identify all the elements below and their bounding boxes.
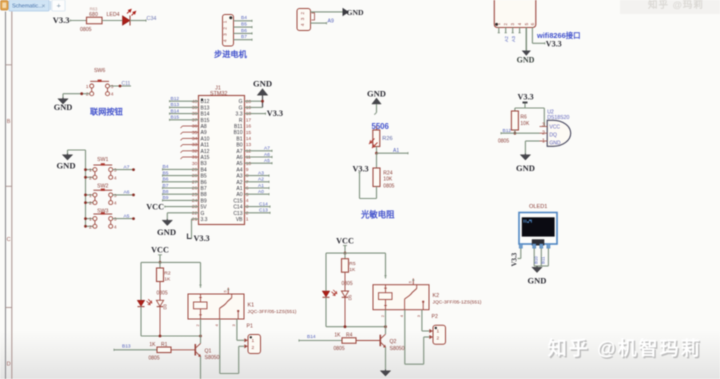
svg-text:GND: GND <box>516 163 535 173</box>
svg-text:VCC: VCC <box>549 125 560 131</box>
svg-text:13: 13 <box>246 142 252 148</box>
wires J1 right nets C14 C13 <box>245 201 271 214</box>
connector wifi8266 <box>494 0 536 28</box>
wire VCC rail (K2) <box>344 246 346 254</box>
svg-text:K2: K2 <box>433 293 440 299</box>
svg-text:29: 29 <box>192 167 198 173</box>
J1 left pin stubs A8-A15 <box>181 126 199 159</box>
svg-text:A4: A4 <box>236 167 242 173</box>
wire R63 to LED4 <box>102 20 122 22</box>
svg-text:Schematic...: Schematic... <box>12 4 43 10</box>
resistor R6 10K 0805 <box>511 111 518 130</box>
svg-text:V3.3: V3.3 <box>267 109 283 118</box>
svg-text:A7: A7 <box>264 146 270 152</box>
svg-text:B9: B9 <box>201 198 207 204</box>
wire G pin19 to gnd <box>245 106 263 108</box>
svg-text:1K: 1K <box>149 342 156 348</box>
svg-text:B7: B7 <box>241 34 247 40</box>
resistor R5 1K 0805 <box>344 253 346 259</box>
svg-text:31: 31 <box>192 155 198 161</box>
wire junction to R24 <box>376 153 378 168</box>
resistor R2 1K 0805 <box>159 262 161 268</box>
wire wifi GND <box>525 28 527 51</box>
wire Q2 emitter to ground <box>385 347 387 369</box>
svg-text:B7: B7 <box>163 183 169 189</box>
photoresistor R26 <box>373 130 380 147</box>
wire diode rail to transistor (Q2) <box>326 326 386 328</box>
svg-text:B11: B11 <box>234 124 243 130</box>
svg-text:C: C <box>7 237 11 243</box>
svg-text:B5: B5 <box>201 174 207 180</box>
svg-text:B6: B6 <box>201 180 207 186</box>
svg-text:GND: GND <box>253 79 272 89</box>
svg-text:▌▌▄▀▌: ▌▌▄▀▌ <box>524 219 533 223</box>
wires J1 left nets B12-B15 <box>170 96 199 121</box>
svg-text:33: 33 <box>192 142 198 148</box>
sheet border frame <box>5 12 7 379</box>
svg-text:知乎 @机智玛莉: 知乎 @机智玛莉 <box>548 337 702 360</box>
ground GND (SW6) <box>62 98 64 99</box>
svg-text:A6: A6 <box>124 190 130 196</box>
svg-text:C11: C11 <box>122 81 131 87</box>
svg-text:B7: B7 <box>201 186 207 192</box>
svg-text:R6: R6 <box>520 114 527 120</box>
resistor R24 10K 0805 <box>373 168 380 187</box>
wire relay coil to collector (Q1) <box>200 319 202 344</box>
svg-text:JQC-3FF/05-1ZS(551): JQC-3FF/05-1ZS(551) <box>433 300 482 306</box>
svg-text:3: 3 <box>114 193 117 199</box>
svg-text:25: 25 <box>192 192 198 198</box>
svg-text:11: 11 <box>246 155 251 161</box>
ground GND (DS18B20) <box>524 154 526 155</box>
svg-text:0805: 0805 <box>342 281 353 287</box>
connector J? stepper motor <box>223 15 234 47</box>
svg-text:16: 16 <box>246 124 252 130</box>
svg-text:2: 2 <box>89 175 92 181</box>
svg-text:A3: A3 <box>236 174 242 180</box>
wire gnd to R26 <box>376 104 378 113</box>
svg-text:GND: GND <box>367 88 386 98</box>
svg-text:GND: GND <box>517 56 535 65</box>
svg-text:A9: A9 <box>201 130 207 136</box>
svg-text:23: 23 <box>192 204 198 210</box>
editor tab bar <box>0 0 66 12</box>
svg-text:4: 4 <box>114 224 117 230</box>
svg-text:B4: B4 <box>163 164 169 170</box>
svg-text:V3.3: V3.3 <box>53 15 70 25</box>
svg-text:B0: B0 <box>236 143 242 149</box>
svg-text:36: 36 <box>192 124 198 130</box>
wire relay contacts to P1 <box>219 319 221 374</box>
wire pin to GND flag <box>311 11 343 13</box>
wire Q1 emitter <box>200 357 202 379</box>
wire R24 to V3.3 <box>376 187 378 199</box>
wire U2 gnd pin <box>525 140 539 142</box>
svg-text:VCC: VCC <box>151 246 169 255</box>
J1 pin names and numbers <box>192 99 252 223</box>
wire R26 to A1 net <box>376 147 378 154</box>
svg-text:V3.3: V3.3 <box>546 40 562 49</box>
svg-text:B3: B3 <box>201 161 207 167</box>
svg-text:0805: 0805 <box>383 183 394 189</box>
svg-text:B6: B6 <box>241 28 247 34</box>
svg-text:S8050: S8050 <box>205 355 220 361</box>
svg-text:B9: B9 <box>163 195 169 201</box>
svg-text:4: 4 <box>300 23 305 26</box>
wire V3.3 to R63 <box>70 20 87 22</box>
svg-text:A7: A7 <box>124 164 130 170</box>
svg-text:10K: 10K <box>383 177 393 183</box>
wire 3.3 pin18 to V3.3 <box>245 113 266 115</box>
svg-text:6: 6 <box>246 186 249 192</box>
svg-text:B14: B14 <box>171 108 180 114</box>
svg-text:GND: GND <box>56 161 75 171</box>
ground GND (wifi) <box>522 51 531 56</box>
svg-text:2: 2 <box>246 210 249 216</box>
svg-text:A2: A2 <box>236 180 242 186</box>
svg-text:B13: B13 <box>171 102 180 108</box>
svg-text:1: 1 <box>246 217 249 223</box>
switch SW3 <box>93 213 112 215</box>
svg-text:4: 4 <box>111 92 114 98</box>
svg-text:12: 12 <box>246 148 252 154</box>
wires J1 left nets B4-B9 <box>163 164 199 201</box>
svg-text:4: 4 <box>114 201 117 207</box>
svg-text:A3: A3 <box>258 170 264 176</box>
svg-text:GND: GND <box>54 103 73 112</box>
svg-text:4: 4 <box>114 175 117 181</box>
svg-text:A6: A6 <box>264 152 270 158</box>
wire GND rail to switches <box>67 150 69 154</box>
svg-text:7: 7 <box>246 179 249 185</box>
svg-text:1: 1 <box>89 217 92 223</box>
svg-text:C15: C15 <box>233 198 242 204</box>
svg-text:A5: A5 <box>264 158 270 164</box>
svg-text:GND: GND <box>549 140 561 146</box>
svg-text:0805: 0805 <box>334 346 345 352</box>
svg-text:JQC-3FF/05-1ZS(551): JQC-3FF/05-1ZS(551) <box>248 309 297 315</box>
svg-text:SW2: SW2 <box>97 184 108 190</box>
LED D4 <box>322 291 330 297</box>
svg-text:B12: B12 <box>201 99 210 105</box>
svg-text:B4: B4 <box>201 167 207 173</box>
svg-text:19: 19 <box>246 105 252 111</box>
svg-text:G: G <box>239 99 243 105</box>
svg-text:R63: R63 <box>90 7 98 12</box>
svg-text:3: 3 <box>246 204 249 210</box>
svg-text:B4: B4 <box>241 15 247 21</box>
svg-text:22: 22 <box>192 210 198 216</box>
wire relay contacts to P2 <box>404 310 406 365</box>
wire V3.3 to R6/U2 <box>524 104 526 109</box>
transistor Q2 S8050 <box>379 335 381 347</box>
svg-text:A11: A11 <box>201 143 210 149</box>
svg-text:V3.3: V3.3 <box>511 252 519 266</box>
svg-text:V3.3: V3.3 <box>353 164 369 173</box>
svg-text:光敏电阻: 光敏电阻 <box>360 210 395 220</box>
svg-text:21: 21 <box>192 217 198 223</box>
svg-text:G: G <box>239 105 243 111</box>
wire G pin to GND <box>167 212 198 214</box>
svg-text:A10: A10 <box>201 136 210 142</box>
svg-text:R24: R24 <box>383 170 392 176</box>
wire wifi V3.3 <box>531 28 533 44</box>
svg-text:K1: K1 <box>248 302 255 308</box>
svg-text:R2: R2 <box>164 270 171 276</box>
svg-text:2: 2 <box>437 336 440 342</box>
svg-text:1: 1 <box>86 84 89 90</box>
svg-text:0805: 0805 <box>149 356 160 362</box>
svg-text:VB: VB <box>236 217 243 223</box>
svg-text:B15: B15 <box>171 115 180 121</box>
svg-text:D5: D5 <box>348 294 353 300</box>
ground GND (Q2) <box>385 370 387 371</box>
wire SW6 to GND <box>63 93 90 95</box>
svg-text:A3: A3 <box>511 36 517 42</box>
svg-text:B8: B8 <box>163 189 169 195</box>
resistor R4 1K 0805 <box>299 340 342 342</box>
wire OLED pin1 V3.3 <box>520 248 522 258</box>
svg-text:C34: C34 <box>147 16 157 22</box>
resistor R1 1K 0805 <box>114 349 157 351</box>
svg-text:3: 3 <box>111 84 114 90</box>
svg-text:B10: B10 <box>533 256 538 264</box>
svg-text:2: 2 <box>252 345 255 351</box>
svg-text:B11: B11 <box>540 256 545 264</box>
svg-text:1K: 1K <box>164 276 171 282</box>
diode D5 <box>341 291 348 297</box>
svg-text:A0: A0 <box>236 192 242 198</box>
svg-text:A5: A5 <box>124 213 130 219</box>
svg-text:8: 8 <box>246 173 249 179</box>
svg-text:B15: B15 <box>201 118 210 124</box>
svg-text:R: R <box>239 118 243 124</box>
svg-text:39: 39 <box>192 105 198 111</box>
svg-text:40: 40 <box>192 99 198 105</box>
wire LED4 to C34 <box>130 20 146 22</box>
svg-text:14: 14 <box>246 136 252 142</box>
svg-text:0805: 0805 <box>157 291 168 297</box>
svg-text:V3.3: V3.3 <box>518 93 534 102</box>
connector P? 4-pin header <box>297 9 311 31</box>
switch SW1 <box>93 164 112 166</box>
wire SW3 to A5 <box>113 218 134 220</box>
svg-text:3: 3 <box>300 17 305 20</box>
svg-text:D: D <box>7 362 11 368</box>
svg-text:24: 24 <box>192 198 198 204</box>
svg-text:B10: B10 <box>234 130 243 136</box>
wire diode rail to transistor (Q1) <box>141 335 201 337</box>
svg-text:B13: B13 <box>122 343 131 349</box>
svg-text:30: 30 <box>192 161 198 167</box>
svg-text:C14: C14 <box>259 201 268 207</box>
svg-text:20: 20 <box>246 99 252 105</box>
svg-text:B12: B12 <box>171 96 180 102</box>
svg-text:B14: B14 <box>201 112 210 118</box>
svg-text:5V: 5V <box>201 205 208 211</box>
svg-text:3.3: 3.3 <box>201 217 208 223</box>
svg-text:2: 2 <box>89 201 92 207</box>
svg-text:3: 3 <box>542 123 545 129</box>
svg-text:VCC: VCC <box>146 203 164 212</box>
svg-text:1: 1 <box>223 20 228 23</box>
svg-text:P2: P2 <box>432 314 438 320</box>
svg-text:知乎 @玛莉: 知乎 @玛莉 <box>647 0 704 11</box>
svg-text:37: 37 <box>192 117 198 123</box>
svg-text:26: 26 <box>192 186 198 192</box>
switch SW2 <box>93 189 112 191</box>
svg-text:A1: A1 <box>393 148 399 154</box>
relay K1 JQC-3FF/05-1ZS(551) <box>188 294 244 319</box>
svg-text:3: 3 <box>223 33 228 36</box>
wires wifi8266 pins <box>498 28 500 33</box>
svg-text:GND: GND <box>157 227 176 237</box>
svg-text:C13: C13 <box>259 208 268 214</box>
svg-text:A12: A12 <box>201 149 210 155</box>
ground flag GND <box>343 8 350 16</box>
svg-text:wifi8266接口: wifi8266接口 <box>536 31 581 40</box>
svg-text:A15: A15 <box>201 155 210 161</box>
svg-text:27: 27 <box>192 179 198 185</box>
svg-text:17: 17 <box>246 117 252 123</box>
svg-text:B12: B12 <box>503 128 512 134</box>
relay K2 JQC-3FF/05-1ZS(551) <box>373 285 429 310</box>
svg-text:4: 4 <box>246 198 249 204</box>
svg-text:R26: R26 <box>382 136 392 142</box>
svg-text:A8: A8 <box>201 124 207 130</box>
svg-text:3: 3 <box>114 168 117 174</box>
svg-text:2: 2 <box>89 224 92 230</box>
svg-text:+: + <box>57 1 62 10</box>
svg-text:A2: A2 <box>504 36 510 42</box>
svg-text:V3.3: V3.3 <box>194 234 210 243</box>
svg-text:38: 38 <box>192 111 198 117</box>
svg-text:B8: B8 <box>201 192 207 198</box>
svg-text:3.3: 3.3 <box>236 112 243 118</box>
wires J1 right nets A7 A6 A5 <box>245 146 273 165</box>
svg-text:LED4: LED4 <box>107 12 120 18</box>
svg-text:B6: B6 <box>163 177 169 183</box>
svg-text:9: 9 <box>246 167 249 173</box>
LED D2 <box>137 300 145 306</box>
svg-text:2: 2 <box>300 11 305 14</box>
svg-text:2: 2 <box>86 92 89 98</box>
svg-text:B: B <box>7 119 11 125</box>
svg-text:32: 32 <box>192 148 198 154</box>
svg-text:1: 1 <box>252 338 255 344</box>
svg-text:A7: A7 <box>236 149 242 155</box>
relay channel 1 <box>0 0 1 1</box>
svg-text:GND: GND <box>528 276 547 286</box>
svg-text:Q1: Q1 <box>205 349 212 355</box>
wire VCC to 5V pin <box>165 206 199 208</box>
svg-text:0805: 0805 <box>498 138 509 144</box>
wires OLED pins 2-4 <box>533 248 535 266</box>
wire pin to A9 <box>311 22 327 24</box>
svg-text:B5: B5 <box>241 22 247 28</box>
svg-text:SW6: SW6 <box>94 68 105 74</box>
svg-text:G: G <box>201 211 205 217</box>
svg-text:SW3: SW3 <box>97 209 108 215</box>
svg-text:S8050: S8050 <box>390 346 405 352</box>
ground GND (SW bank) <box>67 154 69 155</box>
svg-text:GND: GND <box>347 8 365 17</box>
wire G pin20 to gnd <box>245 100 263 102</box>
svg-text:2: 2 <box>223 27 228 30</box>
svg-text:DQ: DQ <box>549 132 557 138</box>
wires stepper pins to nets B4-B7 <box>234 20 253 22</box>
svg-text:15: 15 <box>246 130 252 136</box>
svg-text:35: 35 <box>192 130 198 136</box>
svg-text:0805: 0805 <box>80 27 92 33</box>
svg-text:P1: P1 <box>247 324 253 330</box>
svg-text:1K: 1K <box>334 333 341 339</box>
svg-text:Q2: Q2 <box>390 339 397 345</box>
svg-text:1: 1 <box>89 193 92 199</box>
svg-text:A0: A0 <box>258 189 264 195</box>
svg-text:3: 3 <box>114 217 117 223</box>
svg-text:×: × <box>42 3 46 10</box>
wire VCC rail (K1) <box>159 255 161 263</box>
svg-text:A1: A1 <box>258 183 264 189</box>
svg-text:A9: A9 <box>328 19 334 25</box>
svg-text:A6: A6 <box>236 155 242 161</box>
svg-text:10K: 10K <box>520 121 530 127</box>
wire SW6 to C11 <box>110 85 132 87</box>
svg-text:C13: C13 <box>233 211 242 217</box>
svg-text:1K: 1K <box>349 267 356 273</box>
svg-text:B14: B14 <box>307 334 316 340</box>
wire relay coil to collector (Q2) <box>385 310 387 335</box>
svg-text:18: 18 <box>246 111 252 117</box>
svg-text:A2: A2 <box>258 177 264 183</box>
ground GND (OLED) <box>536 266 538 267</box>
svg-text:10: 10 <box>246 161 252 167</box>
svg-text:联网按钮: 联网按钮 <box>90 107 124 117</box>
svg-text:OLED1: OLED1 <box>529 204 547 210</box>
svg-text:步进电机: 步进电机 <box>214 49 248 59</box>
svg-text:B5: B5 <box>163 170 169 176</box>
svg-text:R5: R5 <box>349 261 356 267</box>
svg-text:4: 4 <box>223 39 228 42</box>
diode D3 <box>156 300 163 306</box>
svg-text:34: 34 <box>192 136 198 142</box>
switch SW6 <box>90 80 109 82</box>
wire SW2 to A6 <box>113 194 134 196</box>
svg-text:28: 28 <box>192 173 198 179</box>
wire SW1 to A7 <box>113 169 134 171</box>
svg-text:1: 1 <box>89 168 92 174</box>
svg-text:B13: B13 <box>201 105 210 111</box>
svg-text:C14: C14 <box>233 205 242 211</box>
svg-text:5: 5 <box>246 192 249 198</box>
svg-text:A5: A5 <box>236 161 242 167</box>
wire DQ net B12 <box>514 130 516 133</box>
relay channel 2 <box>0 0 1 1</box>
svg-text:B1: B1 <box>236 136 242 142</box>
svg-text:VCC: VCC <box>336 236 354 245</box>
wires J1 right nets A3 A2 A1 A0 <box>245 170 270 195</box>
transistor Q1 S8050 <box>194 344 196 356</box>
svg-text:1: 1 <box>437 329 440 335</box>
svg-text:A1: A1 <box>236 186 242 192</box>
wire 3.3 pin to V3.3 <box>192 218 199 220</box>
ground GND (J1 left) <box>166 219 168 220</box>
svg-text:D3: D3 <box>163 303 168 309</box>
svg-text:SW1: SW1 <box>97 157 108 163</box>
